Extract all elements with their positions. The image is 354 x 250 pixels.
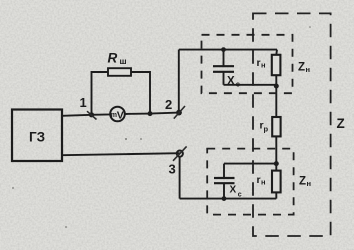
capacitor Xc upper lead bottom (223, 72, 225, 85)
generator ГЗ box (12, 110, 62, 162)
label 2 (165, 97, 172, 112)
svg-text:с: с (236, 80, 240, 89)
wire mV meter to junction (125, 113, 151, 115)
label ГЗ (29, 130, 45, 145)
resistor rн lower leads (275, 164, 277, 199)
svg-text:r: r (257, 174, 261, 186)
svg-text:r: r (257, 57, 261, 69)
label rр (260, 120, 269, 134)
resistor rн upper leads (275, 50, 278, 85)
label Zн lower (299, 176, 311, 189)
svg-text:V: V (117, 109, 124, 121)
resistor Rш (108, 68, 131, 76)
wire node 2 riser (178, 50, 180, 113)
wire riser to upper load (179, 49, 277, 51)
svg-text:2: 2 (165, 97, 172, 112)
svg-text:н: н (306, 65, 311, 74)
svg-text:3: 3 (169, 162, 176, 177)
wire upper bottom rail (224, 84, 277, 86)
svg-text:н: н (307, 179, 312, 188)
wire node 3 down (179, 157, 181, 199)
capacitor Xc upper lead top (223, 50, 225, 66)
label Xc lower (230, 185, 242, 199)
junction dot lower top rail (274, 161, 279, 166)
faint scan specks (12, 26, 311, 228)
upper load Zн dashed box (202, 35, 293, 93)
capacitor Xc lower lead bottom (223, 183, 225, 198)
label 3 (169, 162, 176, 177)
wire junction to node 2 (150, 113, 179, 114)
capacitor Xc lower lead top (223, 164, 225, 178)
svg-text:н: н (261, 178, 266, 187)
node 3 slash (173, 146, 187, 160)
wire node 1 to mV meter (92, 113, 111, 115)
wire lower bottom rail (180, 198, 277, 200)
svg-text:1: 1 (80, 95, 87, 110)
junction dot upper rн bottom (274, 84, 279, 89)
resistor rр (272, 117, 280, 136)
svg-text:Z: Z (337, 116, 345, 131)
svg-text:н: н (261, 61, 266, 70)
svg-text:с: с (238, 191, 242, 198)
node 2 slash (174, 106, 185, 119)
resistor rн upper (272, 55, 281, 75)
label rн upper (257, 57, 266, 70)
svg-text:ш: ш (120, 56, 127, 66)
node 3 terminal (177, 151, 183, 157)
junction dot node 1 (89, 112, 94, 117)
lower load Zн dashed box (207, 149, 293, 215)
wire rр to lower load (275, 136, 277, 163)
svg-text:ГЗ: ГЗ (29, 130, 45, 145)
svg-text:X: X (227, 76, 235, 88)
junction dot Rш right (148, 111, 153, 116)
Rш branch left wire (92, 72, 109, 115)
svg-text:X: X (230, 185, 237, 196)
label Z (337, 116, 345, 131)
svg-text:Z: Z (299, 176, 306, 188)
wire ГЗ to node 1 (62, 115, 92, 116)
outer impedance Z dashed box (253, 13, 331, 236)
label 1 (80, 95, 87, 110)
wire junction to rр (275, 85, 277, 117)
svg-text:R: R (108, 51, 118, 66)
resistor rн lower (272, 171, 281, 193)
junction dot lower Xc bottom (222, 196, 227, 201)
wire ГЗ to node 3 (62, 153, 180, 155)
svg-text:Z: Z (298, 62, 305, 74)
node 1 slash (87, 111, 97, 119)
capacitor Xc lower plates (214, 178, 235, 183)
label rн lower (257, 174, 266, 187)
label Zн upper (298, 62, 310, 75)
millivoltmeter mV (110, 107, 125, 122)
wire lower top rail (224, 163, 276, 165)
node 2 terminal (176, 110, 182, 116)
label Rш (108, 51, 127, 67)
svg-text:р: р (264, 125, 269, 134)
capacitor Xc upper plates (213, 66, 234, 72)
Rш branch right wire (131, 72, 150, 114)
label Xc upper (227, 76, 240, 89)
junction dot upper Xc top (221, 47, 226, 52)
